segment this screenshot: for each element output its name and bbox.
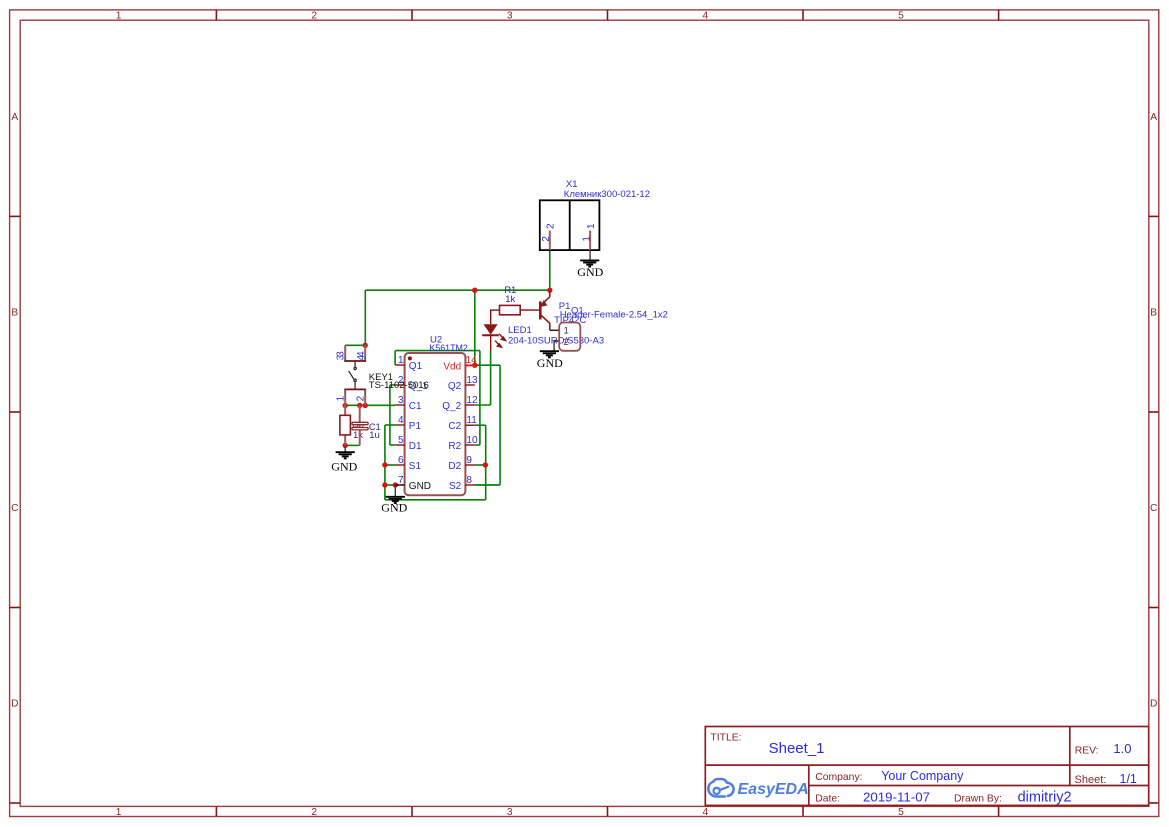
svg-text:Header-Female-2.54_1x2: Header-Female-2.54_1x2 [560,309,668,320]
svg-text:1: 1 [586,223,597,229]
svg-text:A: A [1150,112,1157,123]
svg-text:12: 12 [466,395,478,406]
svg-text:2: 2 [311,807,317,818]
svg-text:GND: GND [537,356,563,370]
svg-text:Vdd: Vdd [443,361,461,372]
svg-text:6: 6 [398,455,404,466]
svg-text:EasyEDA: EasyEDA [738,781,809,798]
svg-text:1u: 1u [369,430,380,441]
svg-text:1: 1 [564,325,569,336]
svg-text:B: B [1150,308,1157,319]
svg-text:Клемник300-021-12: Клемник300-021-12 [564,189,650,200]
svg-text:K561TM2: K561TM2 [429,343,468,353]
svg-text:GND: GND [577,265,603,279]
svg-text:B: B [11,308,18,319]
svg-text:C: C [11,503,18,514]
svg-text:Sheet:: Sheet: [1075,774,1107,786]
svg-text:TS-1102-5016: TS-1102-5016 [369,380,429,391]
svg-text:REV:: REV: [1075,745,1099,756]
svg-text:5: 5 [898,807,904,818]
svg-text:Q_2: Q_2 [442,401,461,412]
svg-text:2: 2 [564,337,569,348]
svg-text:GND: GND [331,460,357,474]
svg-text:11: 11 [466,415,477,426]
svg-text:10: 10 [466,435,478,446]
svg-text:Company:: Company: [815,772,862,783]
svg-text:4: 4 [356,355,367,361]
svg-text:13: 13 [466,375,478,386]
svg-text:3: 3 [335,354,346,360]
svg-text:3: 3 [398,395,404,406]
svg-text:2: 2 [356,395,367,401]
svg-text:2019-11-07: 2019-11-07 [863,789,930,804]
svg-text:dimitriy2: dimitriy2 [1018,789,1072,805]
svg-text:2: 2 [541,236,552,242]
svg-text:A: A [11,112,18,123]
svg-text:9: 9 [466,455,472,466]
svg-text:7: 7 [398,475,404,486]
svg-text:14: 14 [466,355,478,366]
svg-text:Sheet_1: Sheet_1 [769,740,825,757]
svg-text:S2: S2 [449,481,462,492]
svg-text:LED1: LED1 [508,325,532,336]
svg-text:Drawn By:: Drawn By: [954,794,1002,805]
svg-text:Date:: Date: [815,794,840,805]
svg-text:2: 2 [311,11,317,22]
svg-text:C1: C1 [409,401,422,412]
svg-text:C: C [1150,503,1157,514]
svg-text:1: 1 [581,236,592,242]
svg-text:Q1: Q1 [409,361,423,372]
svg-text:3: 3 [507,807,513,818]
svg-text:2: 2 [546,223,557,229]
svg-text:4: 4 [702,11,708,22]
svg-text:D: D [11,699,18,710]
svg-text:1: 1 [116,807,122,818]
svg-text:5: 5 [898,11,904,22]
svg-text:1: 1 [336,395,347,401]
svg-text:R2: R2 [448,441,461,452]
svg-text:1: 1 [398,355,404,366]
svg-text:Q2: Q2 [448,381,462,392]
svg-text:C2: C2 [448,421,461,432]
svg-text:Your Company: Your Company [881,769,964,783]
svg-text:GND: GND [409,481,431,492]
svg-text:1k: 1k [505,294,515,305]
svg-text:1: 1 [116,11,122,22]
svg-text:8: 8 [466,475,472,486]
svg-text:S1: S1 [409,461,422,472]
svg-text:D1: D1 [409,441,422,452]
svg-text:5: 5 [398,435,404,446]
svg-text:1/1: 1/1 [1120,772,1137,786]
svg-text:1.0: 1.0 [1113,741,1131,756]
svg-text:D2: D2 [448,461,461,472]
svg-text:1k: 1k [353,430,363,441]
svg-text:D: D [1150,699,1157,710]
svg-text:4: 4 [398,415,404,426]
svg-text:TITLE:: TITLE: [710,733,741,744]
svg-text:4: 4 [702,807,708,818]
svg-text:P1: P1 [409,421,422,432]
svg-text:GND: GND [381,501,407,515]
svg-text:3: 3 [507,11,513,22]
